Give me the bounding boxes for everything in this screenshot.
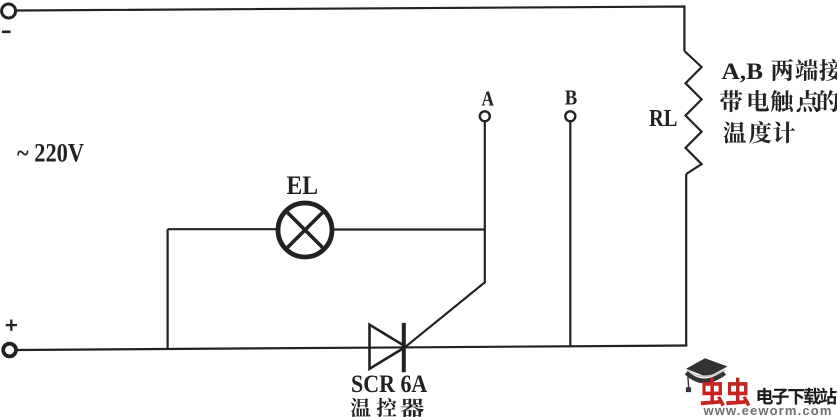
annotation line2 带电触点的	[720, 90, 742, 112]
wire gate from A	[405, 122, 485, 347]
logo 虫虫	[701, 378, 725, 407]
minus label	[2, 30, 11, 33]
logo tassel	[688, 372, 689, 388]
wire from B	[569, 122, 571, 346]
svg-text:SCR 6A: SCR 6A	[351, 371, 427, 398]
thyristor SCR anode triangle	[370, 325, 406, 369]
svg-text:RL: RL	[649, 105, 678, 132]
svg-text:B: B	[565, 86, 578, 110]
label 温控器	[351, 398, 371, 417]
wire lamp left	[168, 228, 277, 230]
svg-text:EL: EL	[287, 170, 319, 200]
svg-text:A,B: A,B	[722, 59, 764, 84]
svg-text:~ 220V: ~ 220V	[17, 138, 84, 167]
svg-text:A: A	[482, 87, 495, 111]
wire lamp right	[334, 228, 485, 230]
terminal T1 negative	[2, 4, 16, 18]
node B terminal	[565, 111, 575, 121]
plus label	[6, 324, 17, 326]
annotation line3 温度计	[723, 122, 746, 144]
svg-text:www.eeworm.com: www.eeworm.com	[703, 403, 833, 417]
logo 电子下载站	[757, 388, 773, 405]
thyristor SCR cathode bar	[402, 323, 406, 372]
wire right lower	[685, 174, 687, 346]
lamp EL	[278, 203, 332, 257]
wire top	[17, 7, 684, 52]
node A terminal	[480, 111, 490, 121]
wire bottom	[18, 346, 688, 351]
resistor RL	[684, 51, 701, 174]
logo graduation cap	[686, 358, 728, 377]
terminal T2 positive	[3, 344, 16, 357]
wire branch left vertical	[167, 229, 169, 349]
